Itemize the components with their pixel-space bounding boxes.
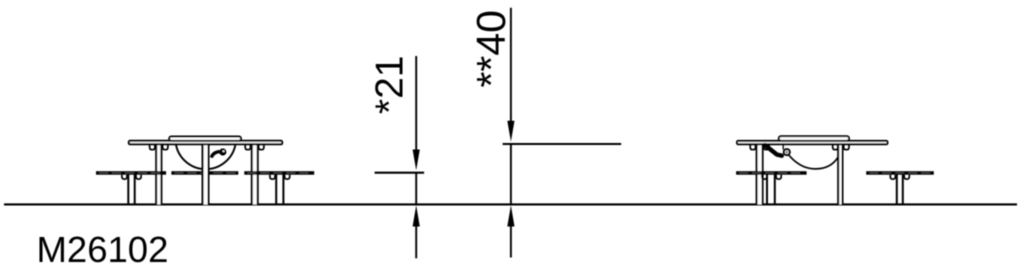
leg mount brackets under tabletop (left table, left leg) bbox=[150, 145, 155, 150]
dimension line upper (*21) bbox=[415, 56, 417, 154]
ground line bbox=[4, 203, 1017, 205]
bench leg (right bench, right table) bbox=[890, 174, 909, 204]
dimension line upper (**40) bbox=[510, 8, 512, 125]
bench leg right (left table) bbox=[270, 174, 290, 204]
crank handle with knob (right table) bbox=[765, 144, 790, 155]
arrowhead down (**40) bbox=[507, 121, 514, 142]
bench board right (left table) bbox=[244, 171, 314, 175]
grill plate on tabletop (left table) bbox=[169, 137, 241, 141]
bench leg (left bench, right table) bbox=[762, 174, 781, 204]
tabletop (left table) bbox=[129, 141, 282, 145]
table leg right (right table) bbox=[838, 144, 842, 204]
table leg left (right table) bbox=[757, 144, 763, 204]
bench board right (right table) bbox=[866, 171, 934, 175]
crank handle folded (left table) bbox=[211, 148, 226, 157]
grill plate on tabletop (right table) bbox=[779, 136, 849, 141]
tabletop (right table) bbox=[737, 141, 888, 144]
table leg right (left table) bbox=[252, 144, 258, 204]
dimension line through (**40) bbox=[510, 144, 512, 204]
dimension tail below ground (*21) bbox=[415, 222, 417, 258]
table center leg (left table) bbox=[203, 144, 209, 204]
table leg left (left table) bbox=[156, 144, 161, 204]
dimension tail below ground (**40) bbox=[510, 222, 512, 258]
bowl arc under left table bbox=[176, 144, 236, 169]
hanging bowl curve (right table) bbox=[787, 152, 839, 169]
arrowhead up below ground (**40) bbox=[507, 205, 514, 226]
leg mount brackets under tabletop (right table, right leg) bbox=[833, 145, 838, 150]
svg-text:**40: **40 bbox=[468, 10, 514, 88]
dimension line through (*21) bbox=[415, 173, 417, 204]
table center leg redrawn over board (left table) bbox=[203, 144, 209, 204]
arrowhead up below ground (*21) bbox=[413, 205, 420, 226]
bench height reference tick (*21) bbox=[375, 172, 425, 174]
bench leg left (left table) bbox=[122, 174, 141, 204]
svg-text:M26102: M26102 bbox=[37, 229, 169, 269]
tabletop height reference tick (**40) bbox=[503, 143, 622, 145]
leg mount brackets under tabletop (right table, left leg) bbox=[750, 145, 755, 150]
bench board left (left table) bbox=[96, 171, 166, 175]
leg mount brackets under tabletop (left table, right leg) bbox=[245, 145, 250, 150]
svg-text:*21: *21 bbox=[368, 56, 411, 115]
bench board middle (left table) bbox=[171, 171, 238, 175]
bench board left (right table) bbox=[736, 171, 807, 175]
arrowhead down (*21) bbox=[413, 150, 420, 171]
